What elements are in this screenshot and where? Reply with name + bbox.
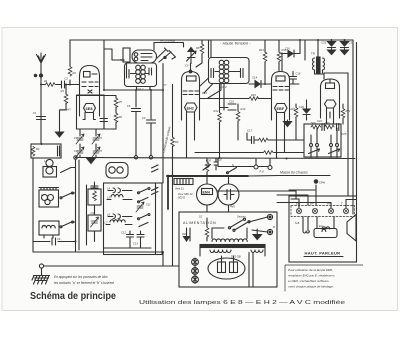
svg-text:C8: C8	[127, 104, 131, 108]
footnote right box	[285, 265, 363, 292]
capacitor C2	[62, 81, 65, 88]
svg-text:en 6E8, s'échauffant suffisam-: en 6E8, s'échauffant suffisam-	[288, 279, 330, 283]
svg-text:Exc: Exc	[319, 224, 324, 228]
svg-text:R22: R22	[346, 109, 351, 113]
capacitor C6	[52, 238, 56, 245]
label haut parleur	[304, 251, 343, 257]
variable capacitor CV	[187, 48, 197, 64]
svg-text:EBF: EBF	[277, 107, 285, 111]
wire heavy chassis	[167, 175, 248, 177]
capacitor C14 arrow	[249, 76, 272, 88]
svg-text:C14: C14	[252, 76, 258, 80]
capacitor C20	[214, 159, 218, 171]
svg-text:R13: R13	[241, 107, 246, 111]
wire speaker feed	[347, 73, 349, 196]
wire screen EH2	[220, 84, 225, 158]
wire EM tubes	[207, 176, 296, 213]
terminal T3	[149, 156, 152, 159]
svg-text:500: 500	[325, 121, 330, 125]
tube U1 pins	[83, 113, 96, 120]
ground main	[32, 264, 50, 284]
terminal HP4	[343, 208, 348, 213]
svg-text:Utilisation des lampes 6 E: Utilisation des lampes 6 E 8 — E H 2 — A…	[139, 300, 345, 306]
svg-text:C6: C6	[57, 237, 61, 241]
svg-text:S: S	[232, 163, 234, 167]
capacitor C33 electrolytic	[341, 40, 355, 55]
switch S2	[60, 192, 74, 199]
wire commande unique	[162, 64, 164, 184]
svg-text:R5: R5	[119, 100, 123, 104]
wire MF2 feed	[209, 40, 212, 58]
resistor R23	[311, 125, 321, 129]
trimmer C11	[136, 202, 144, 212]
screen box around 6E8	[77, 95, 105, 129]
resistor R30	[205, 218, 209, 241]
svg-text:TR: TR	[311, 52, 315, 56]
svg-text:C4': C4'	[74, 149, 78, 153]
coil row 4	[106, 220, 148, 227]
capacitor C12	[127, 231, 134, 241]
trimmer C4b	[76, 147, 84, 157]
switch S5	[227, 168, 237, 174]
capacitor C9	[147, 120, 156, 123]
svg-text:R21: R21	[291, 107, 296, 111]
terminal HP3	[328, 208, 333, 213]
capacitor C25	[337, 124, 339, 131]
detector chain C17	[247, 129, 285, 144]
terminal T1	[74, 156, 77, 159]
wire HT secondary	[187, 228, 254, 287]
tube U4 anode box	[276, 76, 285, 81]
svg-text:vers bobinage: vers bobinage	[160, 40, 176, 43]
resistor R15	[277, 52, 281, 62]
oscillator coil box	[104, 163, 163, 255]
svg-text:S.B.: S.B.	[295, 221, 300, 225]
svg-text:BP: BP	[310, 202, 314, 206]
capacitor C13	[137, 231, 144, 241]
wire osc grid diagonals	[157, 48, 176, 62]
padder box P1	[88, 186, 101, 205]
svg-text:R16: R16	[251, 93, 256, 97]
wire right bus	[353, 40, 357, 214]
ground 6E8 cathode	[56, 132, 64, 137]
resistor R12	[218, 113, 222, 123]
svg-text:P.U.: P.U.	[260, 170, 265, 174]
wire left column bus	[33, 158, 163, 252]
svg-text:S2: S2	[199, 215, 203, 219]
dial lamps	[192, 258, 199, 284]
svg-text:R8: R8	[196, 46, 200, 50]
wire plate EH2	[200, 98, 272, 100]
svg-text:R6: R6	[119, 115, 123, 119]
tube U1 grid dashes	[82, 82, 98, 93]
power supply box	[179, 212, 277, 287]
resistor R2	[68, 67, 72, 77]
switch S3	[60, 221, 74, 228]
resistor R13	[236, 104, 240, 140]
output transformer TR1	[313, 40, 349, 79]
coil row 2	[107, 195, 148, 203]
svg-text:HAUT. PARLEUR: HAUT. PARLEUR	[305, 251, 341, 256]
tube U3 pins	[187, 112, 195, 158]
svg-text:C4: C4	[74, 136, 78, 140]
wire chassis bus	[76, 158, 356, 159]
wire pot box feeds	[285, 124, 305, 140]
wire MF2 to EH2	[200, 78, 221, 98]
antenna	[37, 53, 46, 77]
tube U5 anode box	[326, 79, 335, 89]
excitation coil	[295, 217, 309, 234]
capacitor C8	[132, 109, 141, 112]
tube U3 badge EH2	[185, 103, 198, 112]
svg-text:4V5: 4V5	[230, 205, 235, 209]
node M	[34, 74, 36, 76]
speaker output transformer	[314, 217, 337, 238]
wire HT corner	[70, 40, 353, 85]
wire IF vertical C8	[135, 90, 137, 156]
svg-text:les contacts "a" se ferment et: les contacts "a" se ferment et "b" s'ouv…	[54, 281, 114, 285]
trimmer C5b	[92, 147, 100, 157]
wire IF vertical C9	[150, 90, 152, 156]
svg-text:R1: R1	[44, 79, 48, 83]
tube U1 badge 6E8	[84, 104, 96, 113]
svg-text:6E8: 6E8	[86, 106, 94, 111]
wire cathode	[60, 85, 67, 132]
svg-text:R12: R12	[214, 109, 219, 113]
wire AVC vertical	[172, 85, 174, 176]
wire osc feed	[104, 40, 124, 60]
svg-text:CPH: CPH	[319, 181, 325, 185]
terminal T2	[134, 156, 137, 159]
wire masse underline	[279, 175, 330, 177]
wire HT drop R15	[278, 40, 280, 72]
resistor R14	[263, 52, 267, 62]
resistor R9	[171, 137, 175, 147]
svg-text:C5': C5'	[99, 149, 103, 153]
wire top link	[154, 43, 184, 51]
potentiometer P2	[329, 149, 340, 154]
switch contacts right	[152, 165, 159, 255]
svg-text:500 Ω: 500 Ω	[178, 196, 185, 200]
wire under coil box	[104, 241, 151, 248]
svg-text:C13: C13	[202, 91, 207, 95]
wire HT right drops	[300, 40, 305, 60]
trimmer C5	[92, 134, 100, 144]
resistor R6	[114, 113, 118, 123]
svg-text:C20: C20	[217, 158, 222, 162]
terminal row tone	[310, 128, 339, 158]
wire screen feed	[77, 96, 117, 130]
wire grid input	[41, 84, 79, 86]
svg-text:C18: C18	[285, 47, 290, 51]
wire speaker drops	[277, 185, 357, 208]
resistor R1	[46, 83, 56, 87]
svg-text:A: A	[272, 210, 275, 214]
resistor R3	[64, 94, 68, 104]
coil row 3	[108, 214, 150, 220]
wire switch rail	[33, 150, 76, 242]
wire heavy drop	[167, 176, 169, 210]
capacitor C32 electrolytic	[321, 40, 336, 55]
capacitor C18 arrow	[282, 50, 300, 72]
wire padder col	[79, 160, 95, 250]
power transformer primary	[212, 239, 247, 242]
tone control box	[304, 124, 341, 157]
svg-text:C11: C11	[146, 203, 151, 207]
rectifier tube 5Y3	[208, 256, 245, 279]
tube U6 EM4	[197, 184, 218, 205]
svg-text:C16: C16	[296, 72, 301, 76]
svg-text:5Y3 GB: 5Y3 GB	[231, 255, 241, 259]
svg-text:C3: C3	[91, 185, 95, 189]
speaker section box	[289, 196, 357, 262]
tube U1 6E8 envelope	[80, 66, 100, 117]
svg-text:Pour MW 12: Pour MW 12	[178, 192, 193, 196]
svg-text:C24: C24	[317, 119, 322, 123]
resistor R5	[114, 98, 118, 108]
resistor R21	[294, 104, 298, 124]
svg-text:R3: R3	[61, 89, 65, 93]
node osc	[164, 56, 166, 58]
phase triangle	[184, 237, 190, 242]
svg-text:C25: C25	[342, 132, 347, 136]
ground EBF2	[284, 120, 292, 127]
svg-text:En appuyant sur les poussoirs: En appuyant sur les poussoirs de bloc	[54, 275, 108, 279]
svg-text:Masse du Chassis: Masse du Chassis	[280, 171, 308, 175]
svg-text:R20: R20	[206, 159, 211, 163]
svg-text:C10: C10	[229, 100, 234, 104]
ground trimmer	[87, 159, 95, 164]
svg-text:B: B	[273, 225, 275, 229]
svg-text:CV: CV	[185, 64, 189, 68]
tube U3 anode box	[187, 76, 197, 81]
wire bf line	[195, 152, 304, 154]
capacitor C16	[290, 72, 300, 85]
svg-text:Exc: Exc	[296, 202, 301, 206]
trimmer box osc	[123, 48, 130, 70]
power transformer secondary 1	[210, 250, 231, 253]
capacitor C26 arrow cathode	[303, 100, 310, 120]
terminal mains 1	[267, 214, 272, 219]
svg-text:C2: C2	[65, 77, 69, 81]
svg-text:EH2: EH2	[187, 106, 194, 110]
svg-text:R30: R30	[182, 232, 187, 236]
switch S1	[61, 168, 74, 173]
svg-text:ALIMENTATION: ALIMENTATION	[183, 221, 216, 225]
arrow mains	[253, 235, 262, 240]
tube U5 badge	[325, 100, 337, 108]
terminal HP1	[296, 208, 301, 213]
coil row 1	[108, 188, 150, 194]
svg-text:Pour utilisation de la lampe 6: Pour utilisation de la lampe 6M8,	[288, 268, 333, 272]
tube U3 shield dashes	[183, 91, 199, 95]
svg-text:Vers 12: Vers 12	[175, 187, 184, 191]
coil box A2	[39, 188, 59, 208]
wire power internal	[200, 228, 265, 256]
svg-text:EM4: EM4	[203, 191, 210, 195]
svg-text:HP: HP	[327, 202, 331, 206]
capacitor C10	[220, 104, 237, 110]
coil box A3	[39, 221, 59, 238]
svg-text:C5: C5	[99, 136, 103, 140]
potentiometer P1	[309, 149, 320, 154]
svg-text:C1: C1	[33, 111, 37, 115]
svg-text:C7: C7	[163, 83, 167, 87]
svg-text:Osc.: Osc.	[120, 58, 126, 62]
svg-text:Secteur: Secteur	[237, 215, 246, 219]
wire pu line	[218, 159, 268, 167]
volume potentiometer	[203, 159, 211, 176]
resistor R24	[325, 125, 335, 129]
resistor R16	[249, 97, 259, 101]
resistor R22	[341, 104, 345, 124]
svg-text:C9: C9	[142, 116, 146, 120]
transformer MF2	[209, 58, 250, 84]
svg-text:- Haute Tension -: - Haute Tension -	[220, 41, 251, 46]
svg-text:C3': C3'	[91, 211, 95, 215]
svg-text:R14: R14	[259, 48, 264, 52]
coil L1	[43, 159, 57, 177]
capacitor C24	[322, 124, 324, 131]
resistor R10 grid EH2	[196, 40, 202, 67]
padder box P2	[88, 215, 101, 231]
terminal PU2	[268, 159, 272, 170]
tube U1 anode box	[84, 72, 98, 78]
svg-text:C12: C12	[121, 231, 126, 235]
wire HT drop R14	[264, 40, 266, 84]
transformer MF1	[125, 63, 157, 87]
tube U2 oscillator	[132, 50, 157, 63]
tube U4 pins	[277, 113, 285, 159]
wire MF1 bottom bus	[104, 49, 163, 90]
terminal mains 2	[267, 229, 272, 234]
node CH9	[314, 180, 325, 185]
svg-text:500: 500	[311, 121, 316, 125]
svg-text:R9: R9	[175, 140, 179, 144]
speaker terminal strip	[291, 206, 355, 217]
trimmer C4	[76, 134, 84, 144]
switch mains	[228, 218, 250, 231]
wire antenna down	[40, 76, 42, 145]
svg-text:R2: R2	[73, 71, 77, 75]
tube U3 EH2	[182, 72, 200, 121]
capacitor C7	[100, 119, 108, 130]
component value labels	[33, 46, 351, 246]
terminal HP2	[312, 208, 317, 213]
wire mains links	[249, 217, 268, 235]
svg-text:C26: C26	[299, 105, 304, 109]
resistor R4	[31, 147, 35, 157]
svg-text:R4: R4	[36, 147, 40, 151]
svg-text:ment chaque plaque de blindage: ment chaque plaque de blindage.	[288, 285, 334, 289]
power transformer core	[200, 245, 265, 248]
tube U4 EBF2	[272, 72, 290, 121]
svg-text:C17: C17	[247, 129, 253, 133]
svg-text:remplacer EH2 par E. rétabliss: remplacer EH2 par E. rétablissem.	[288, 274, 335, 278]
speaker cone	[347, 215, 356, 242]
svg-text:C32: C32	[321, 41, 327, 45]
wire trimmer rail	[76, 129, 104, 158]
tube U5 pins	[327, 108, 334, 124]
coil box A1	[31, 144, 61, 158]
svg-text:Schéma de principe: Schéma de principe	[30, 291, 116, 302]
capacitor C1	[37, 117, 46, 120]
tube U4 badge EBF	[275, 104, 288, 113]
tube U5 output	[321, 79, 340, 118]
svg-text:M F 2: M F 2	[219, 85, 227, 89]
terminal PU1	[254, 159, 258, 170]
resistance cord	[174, 179, 193, 191]
wire ground line	[44, 176, 180, 267]
power transformer secondary 2	[251, 250, 263, 252]
tube U7 indicator	[218, 184, 239, 209]
resistor R17	[264, 151, 274, 155]
svg-text:C13: C13	[133, 242, 138, 246]
svg-text:Vers +HT: Vers +HT	[60, 108, 71, 112]
tube U3 grid cap	[189, 64, 192, 73]
tube U4 shield dashes	[273, 87, 289, 91]
